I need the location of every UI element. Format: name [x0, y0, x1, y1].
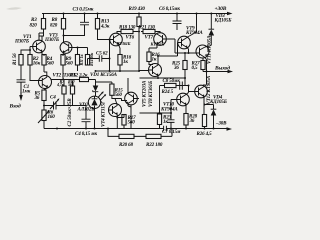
svg-text:R22 180: R22 180 [146, 142, 163, 148]
transistor VT11 [196, 35, 212, 64]
capacitor C5 [88, 51, 110, 62]
capacitor C8 [163, 78, 190, 90]
resistor R3 [30, 14, 46, 37]
svg-text:С7 0,15м: С7 0,15м [162, 129, 181, 135]
wire +30V top rail [42, 12, 233, 15]
wire mid vertical [138, 31, 148, 73]
transistor VT1 [14, 34, 45, 56]
resistor R4 [42, 55, 54, 73]
transistor VT7 [145, 33, 176, 53]
resistor R8 [50, 14, 66, 40]
resistor R21 [139, 25, 161, 34]
wire ground rail [44, 128, 164, 130]
svg-text:560: 560 [66, 61, 74, 67]
svg-text:C8 50мк: C8 50мк [163, 78, 181, 84]
transistor VT3 [44, 33, 72, 55]
wire upper mid [39, 33, 88, 49]
resistor R24 [160, 77, 187, 113]
node R8 top [63, 13, 65, 15]
led VD2 [77, 91, 107, 128]
wire vas emitter row [140, 77, 186, 79]
node C6 top [176, 13, 178, 15]
svg-text:R19 430: R19 430 [129, 6, 146, 12]
resistor R15 [96, 82, 128, 101]
resistor R1 [12, 53, 23, 80]
svg-text:R21 130: R21 130 [139, 25, 156, 31]
wire vas collector [157, 47, 178, 58]
svg-text:R18 130: R18 130 [119, 25, 136, 31]
transistor VT10 [160, 86, 189, 114]
capacitor C7 [162, 126, 181, 136]
svg-text:VD1 КС156А: VD1 КС156А [90, 72, 118, 78]
resistor R20 [107, 128, 146, 149]
svg-text:VT6: VT6 [126, 34, 135, 40]
resistor R10 [68, 79, 75, 106]
svg-text:16к: 16к [33, 61, 41, 67]
svg-text:VT8 КТ361Б: VT8 КТ361Б [148, 80, 154, 107]
svg-text:C3 0,15мк: C3 0,15мк [73, 7, 94, 13]
svg-text:36: 36 [189, 118, 195, 124]
node VT8 rail [196, 13, 198, 15]
svg-text:0,5: 0,5 [192, 65, 199, 71]
resistor R2 [28, 55, 42, 81]
svg-text:КТ361Б: КТ361Б [150, 42, 165, 47]
svg-text:П307Б: П307Б [14, 39, 30, 45]
label C4 [75, 131, 97, 137]
svg-text:VT11 КТ905А: VT11 КТ905А [206, 35, 212, 64]
svg-text:VT4 КТ315Г: VT4 КТ315Г [101, 100, 107, 127]
svg-text:КД105Б: КД105Б [209, 99, 228, 105]
transistor VT8vas [148, 56, 162, 78]
svg-text:820: 820 [50, 23, 58, 29]
trimmer capacitor C4a [48, 95, 60, 110]
svg-text:C4: C4 [50, 95, 56, 101]
input terminal [9, 92, 23, 110]
zener VD1 [90, 72, 118, 96]
transistor VT9 [178, 26, 204, 57]
label VT4 vertical [101, 100, 107, 127]
svg-text:C2 50мк×25В: C2 50мк×25В [67, 98, 73, 127]
svg-text:1мк: 1мк [22, 89, 31, 95]
svg-text:C4 0,15 мк: C4 0,15 мк [75, 131, 97, 137]
svg-text:4,3к: 4,3к [100, 24, 110, 30]
wire VT4 emitter [116, 115, 124, 129]
transistor VT2 [39, 72, 78, 90]
svg-text:VT5 КТ203А: VT5 КТ203А [142, 80, 148, 107]
svg-text:+30В: +30В [215, 6, 227, 12]
svg-text:160: 160 [48, 114, 56, 120]
capacitor C1 [17, 80, 31, 95]
label +30V [215, 6, 227, 12]
resistor R25 [172, 53, 187, 78]
svg-text:R26 4,5: R26 4,5 [197, 131, 213, 137]
svg-text:1к: 1к [152, 57, 157, 63]
resistor R12 [52, 72, 96, 85]
capacitor C6 [159, 6, 182, 30]
svg-text:C6 0,15мк: C6 0,15мк [159, 6, 180, 12]
resistor R19 [129, 6, 146, 31]
svg-text:R11 1к: R11 1к [79, 54, 84, 66]
resistor R9 [61, 55, 73, 80]
resistor R5 [34, 90, 47, 110]
wire output col [205, 72, 207, 87]
node R13 top [97, 13, 99, 15]
svg-text:VT7: VT7 [145, 34, 154, 40]
svg-text:R1 56: R1 56 [12, 53, 18, 65]
resistor R28 [184, 113, 198, 129]
svg-text:560: 560 [115, 92, 123, 98]
resistor R14b [147, 52, 160, 65]
svg-text:–30В: –30В [215, 121, 227, 127]
svg-text:Выход: Выход [214, 65, 230, 72]
wire VT9 collector [188, 14, 197, 38]
svg-text:КТ904А: КТ904А [160, 107, 178, 113]
svg-text:1к: 1к [123, 59, 128, 65]
wire VT6 base [109, 39, 111, 72]
svg-text:560: 560 [128, 120, 136, 126]
svg-text:820: 820 [30, 23, 38, 29]
wire VT1 base bias [21, 47, 33, 55]
svg-text:560: 560 [68, 82, 74, 87]
transistor VT12 [189, 75, 213, 114]
wire -30V rail [166, 121, 232, 131]
diode VD3 [208, 13, 232, 48]
resistor R14 [85, 48, 94, 67]
wire VT2 emitter row [43, 105, 86, 107]
resistor R7 [56, 79, 66, 106]
node C3 top [84, 13, 86, 15]
resistor R13 [95, 14, 110, 40]
wire R6 bottom [56, 128, 96, 130]
label VT8 vertical [148, 80, 154, 107]
svg-text:R24 5: R24 5 [162, 89, 174, 95]
label VT5 vertical [142, 80, 148, 107]
trimmer R6 [38, 110, 55, 129]
resistor R22 [146, 129, 172, 149]
wire mid bus [95, 70, 140, 72]
resistor R26 [197, 115, 213, 138]
svg-text:Вход: Вход [9, 103, 21, 110]
svg-text:П307Б: П307Б [44, 37, 60, 43]
svg-text:R12 2,2к: R12 2,2к [70, 72, 88, 78]
capacitor C2 [67, 98, 91, 129]
resistor R17 [122, 115, 136, 129]
resistor R18 [117, 25, 138, 34]
capacitor C3 [63, 7, 94, 37]
resistor R11 [75, 48, 84, 72]
svg-text:КТ361Б: КТ361Б [116, 41, 131, 46]
node R19 top [138, 13, 140, 15]
wire feedback y53 [175, 52, 207, 72]
diode VD4 [204, 95, 228, 129]
transistor VT6 [110, 33, 135, 48]
label KT361B pair [116, 41, 165, 47]
svg-text:R20 68: R20 68 [119, 142, 133, 148]
capacitor C9 [168, 100, 175, 129]
resistor R27 [192, 58, 206, 71]
svg-text:C5 62: C5 62 [96, 51, 108, 57]
resistor R23 [157, 114, 171, 129]
svg-text:4,7к: 4,7к [56, 82, 65, 87]
wire y113 [140, 112, 173, 114]
resistor R16 [118, 48, 132, 71]
svg-text:КД105Б: КД105Б [214, 18, 233, 24]
svg-text:36: 36 [173, 65, 179, 71]
svg-text:560: 560 [47, 61, 55, 67]
svg-text:36: 36 [34, 95, 40, 101]
transistor VT5 [125, 78, 139, 129]
transistor VT4 [109, 99, 122, 117]
wire output [203, 65, 233, 74]
